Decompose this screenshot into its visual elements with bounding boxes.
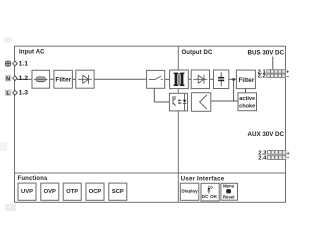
transformer symbol [174,73,185,86]
svg-text:Input AC: Input AC [19,50,45,56]
svg-text:Functions: Functions [18,176,49,182]
svg-text:AUX 30V DC: AUX 30V DC [248,131,285,138]
DC OK led symbol [207,186,212,194]
fuse symbol [34,77,48,82]
svg-text:SCP: SCP [112,189,124,195]
wire main line row2 [17,78,236,80]
terminal square PE [5,61,11,67]
UVP box [18,183,36,200]
svg-text:2.2: 2.2 [258,74,267,80]
input terminal point 1.3 [13,90,18,95]
terminal square L [5,90,11,96]
svg-text:−: − [287,156,290,162]
comparator chevron symbol [200,95,207,109]
output filter box [236,70,255,89]
terminal block 2.2 [266,74,285,78]
switch symbol [149,76,163,80]
outer enclosure box [15,46,286,202]
wire filter to active choke [245,89,247,93]
svg-text:1.1: 1.1 [19,60,29,67]
svg-text:Filter: Filter [55,77,71,84]
svg-text:Display: Display [181,188,198,193]
optocoupler symbol [172,94,186,111]
svg-text:BUS 30V DC: BUS 30V DC [248,49,285,56]
Display box [180,183,199,200]
terminal block 2.3 [267,150,286,154]
wire feedback branch to active choke [211,79,238,101]
svg-text:−: − [286,74,289,80]
svg-text:Menu: Menu [223,184,235,189]
svg-text:Filter: Filter [238,77,254,84]
Menu Reset box [221,183,238,200]
optocoupler box [169,93,187,111]
switch box [147,70,165,88]
output diode symbol [193,75,207,84]
svg-text:2.4: 2.4 [258,156,267,162]
left edge artifact middle [0,142,7,151]
menu button [226,189,231,193]
left edge artifact top [4,37,12,43]
DC OK box [201,183,219,201]
svg-text:UVP: UVP [21,189,33,195]
svg-text:N: N [6,76,10,82]
comparator box [191,93,210,112]
svg-text:DC OK: DC OK [202,194,218,199]
PE earth symbol [5,61,11,67]
rectifier diode symbol [78,75,92,84]
rectifier diode box [76,70,94,88]
svg-text:Output DC: Output DC [182,50,213,56]
svg-text:OCP: OCP [89,189,102,195]
svg-text:OVP: OVP [44,189,56,195]
vertical divider functions/user-interface [177,173,179,202]
terminal block 2.4 [267,155,286,159]
transformer T1 box [170,70,189,89]
vertical divider input/output sections [177,46,179,173]
fuse F1 box [32,70,50,88]
left edge artifact bottom [5,204,16,211]
SCP box [109,183,127,200]
input terminal point 1.2 [13,76,18,81]
terminal block 2.1 [266,69,285,73]
input terminal point 1.1 [13,61,18,66]
input filter box [54,70,73,88]
output diode box [191,70,209,89]
svg-text:1.3: 1.3 [19,89,29,96]
horizontal divider between circuit area and bottom strip [15,172,286,174]
svg-text:choke: choke [239,104,255,110]
svg-text:1.2: 1.2 [19,75,29,82]
capacitor box [214,70,229,89]
svg-text:active: active [239,96,255,102]
wire switch to optocoupler [154,88,169,102]
active choke box [238,93,257,111]
svg-text:OTP: OTP [66,189,78,195]
terminal square N [5,75,11,81]
junction dot [232,78,234,80]
OCP box [86,183,104,200]
wire bus terminal stub [272,57,274,70]
capacitor symbol [218,72,224,86]
svg-text:User Interface: User Interface [181,176,225,182]
OTP box [63,183,81,200]
svg-text:Reset: Reset [223,194,235,199]
OVP box [41,183,59,200]
